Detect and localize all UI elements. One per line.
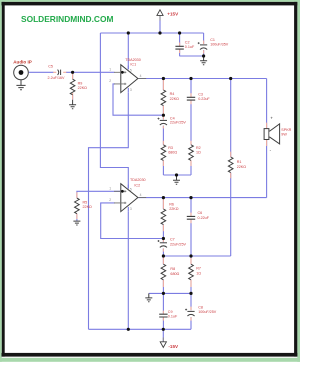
ground C1	[203, 56, 205, 61]
resistor R9	[70, 79, 75, 95]
resistor R3	[161, 145, 166, 161]
node out2 R6	[162, 196, 165, 199]
svg-text:C5: C5	[48, 65, 53, 69]
svg-text:C3: C3	[198, 93, 203, 97]
wire C1 C2 bottom	[180, 55, 204, 57]
op-amp IC2	[109, 184, 146, 212]
node H3 R7	[189, 254, 192, 257]
node rail C2	[178, 31, 181, 34]
wire +15V rail	[100, 32, 203, 34]
wire H3 node link	[163, 255, 230, 257]
svg-text:R6: R6	[169, 203, 174, 207]
svg-text:SPKR: SPKR	[281, 128, 291, 132]
svg-text:22KΩ: 22KΩ	[169, 207, 179, 211]
op-amp IC1	[109, 65, 146, 93]
svg-text:R2: R2	[196, 146, 201, 150]
ground R5	[73, 221, 80, 225]
wire R6 C7 column	[162, 198, 164, 256]
node input	[71, 71, 74, 74]
svg-text:22KΩ: 22KΩ	[237, 165, 247, 169]
svg-text:C1: C1	[210, 38, 215, 42]
svg-text:R8: R8	[170, 267, 175, 271]
wire -15V rail	[89, 328, 192, 330]
svg-text:22KΩ: 22KΩ	[78, 86, 88, 90]
wire C1 column	[203, 33, 205, 56]
capacitor C4	[158, 118, 168, 125]
svg-text:0.1uF: 0.1uF	[185, 45, 195, 49]
ground R3 R2	[176, 175, 178, 180]
svg-text:C2: C2	[185, 40, 190, 44]
svg-text:100uF/35V: 100uF/35V	[210, 43, 229, 47]
svg-text:C4: C4	[170, 117, 175, 121]
wire IC1 pin5 to rail	[127, 33, 129, 69]
wire C3 R2 column	[190, 79, 192, 176]
node rail IC1 pin5	[127, 31, 130, 34]
svg-text:22uF/25V: 22uF/25V	[170, 243, 187, 247]
svg-text:-15V: -15V	[168, 344, 179, 349]
wire audio input line	[29, 71, 115, 73]
svg-text:R7: R7	[196, 267, 201, 271]
capacitor C3	[187, 97, 195, 100]
resistor R2	[189, 145, 194, 161]
wire IC2 pin2 feedback	[101, 203, 164, 239]
svg-text:1Ω: 1Ω	[196, 151, 201, 155]
svg-text:IC2: IC2	[134, 183, 140, 187]
resistor R7	[189, 264, 194, 280]
wire -15V stem	[162, 329, 164, 341]
svg-text:SOLDERINDMIND.COM: SOLDERINDMIND.COM	[21, 14, 113, 24]
svg-text:22uF/25V: 22uF/25V	[170, 121, 187, 125]
node out1 R4	[162, 77, 165, 80]
node out2 C6	[189, 196, 192, 199]
svg-text:9W: 9W	[281, 133, 287, 137]
capacitor C6	[187, 216, 195, 219]
node rail +15 stem	[158, 31, 161, 34]
wire R1 column	[230, 79, 232, 257]
node C1 ground	[202, 54, 205, 57]
svg-text:C9: C9	[168, 310, 173, 314]
svg-text:C8: C8	[198, 306, 203, 310]
node rail- C9	[162, 328, 165, 331]
wire C6 R7 C8 column	[190, 198, 192, 330]
capacitor C8	[185, 309, 195, 316]
ground audio connector	[16, 85, 25, 89]
wire C9 column	[162, 293, 164, 329]
audio input connector	[14, 65, 29, 80]
ground bottom	[148, 293, 150, 297]
wire C2 column	[179, 33, 181, 56]
svg-text:TDA2030: TDA2030	[130, 178, 146, 182]
+15V power symbol	[159, 16, 161, 21]
capacitor C7	[158, 240, 168, 247]
wire IC1 pin2 feedback	[113, 84, 163, 115]
-15V power symbol	[162, 338, 164, 342]
svg-text:680Ω: 680Ω	[170, 272, 179, 276]
wire IC1 output rail	[138, 78, 267, 80]
wire +15V stem	[159, 16, 161, 33]
capacitor C1	[198, 42, 208, 49]
svg-text:680Ω: 680Ω	[168, 151, 177, 155]
wire speaker column	[266, 79, 268, 198]
svg-text:IC1: IC1	[130, 63, 136, 67]
svg-text:R9: R9	[78, 82, 83, 86]
node out1 C3	[189, 77, 192, 80]
node feedback2	[162, 237, 165, 240]
svg-text:0.22uF: 0.22uF	[198, 216, 210, 220]
svg-text:+15V: +15V	[167, 11, 179, 16]
svg-text:100uF/25V: 100uF/25V	[198, 310, 217, 314]
wire R8 column	[162, 256, 164, 293]
node R3 R2 ground	[175, 173, 178, 176]
node rail- pin3	[127, 328, 130, 331]
ground R9	[72, 100, 74, 105]
node gnd R7	[189, 292, 192, 295]
speaker SPKR	[264, 129, 269, 140]
wire IC2 pin1 to R5	[77, 191, 121, 198]
wire R4 C4 R3 column	[162, 79, 164, 176]
resistor R6	[161, 209, 166, 225]
svg-text:R4: R4	[170, 92, 175, 96]
svg-text:0.1uF: 0.1uF	[168, 315, 178, 319]
wire IC1 pin3 to -15 rail	[89, 93, 129, 329]
svg-text:R5: R5	[83, 200, 88, 204]
svg-text:1Ω: 1Ω	[196, 272, 201, 276]
node gnd R8	[162, 292, 165, 295]
svg-text:C7: C7	[170, 237, 175, 241]
svg-text:22KΩ: 22KΩ	[170, 97, 180, 101]
node feedback1	[162, 114, 165, 117]
wire R5 to ground	[76, 214, 78, 221]
capacitor C2	[175, 46, 183, 49]
svg-text:Audio IP: Audio IP	[13, 59, 32, 64]
svg-text:R1: R1	[237, 160, 242, 164]
svg-text:2.2uF/16V: 2.2uF/16V	[48, 76, 66, 80]
wire +15V feed to IC2 pin5	[100, 33, 128, 189]
svg-text:22KΩ: 22KΩ	[83, 205, 93, 209]
svg-text:TDA2030: TDA2030	[125, 58, 141, 62]
resistor R1	[228, 157, 233, 173]
resistor R8	[161, 264, 166, 280]
node H3 C7	[162, 254, 165, 257]
resistor R5	[75, 198, 80, 214]
wire R3 R2 ground link	[163, 174, 191, 176]
svg-text:C6: C6	[198, 211, 203, 215]
svg-text:R3: R3	[168, 146, 173, 150]
salmon pin stubs	[53, 41, 266, 321]
wire IC2 output rail	[138, 197, 267, 199]
wire R9 column	[72, 72, 74, 79]
wire IC2 pin3 down	[127, 212, 129, 330]
capacitor C5	[58, 70, 61, 75]
node out1 R1	[229, 77, 232, 80]
capacitor C9	[159, 314, 167, 317]
wire ground link bottom	[149, 292, 191, 294]
svg-text:0.22uF: 0.22uF	[198, 97, 210, 101]
resistor R4	[161, 90, 166, 106]
